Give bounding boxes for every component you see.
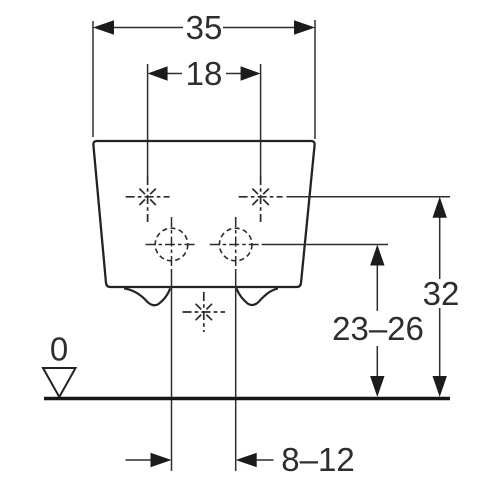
centerlines of left circle <box>146 217 198 271</box>
dimension line 23-26 <box>376 265 378 312</box>
svg-text:8–12: 8–12 <box>281 441 354 478</box>
extension line right for dim 18 <box>260 64 262 176</box>
bottom contour wave right <box>237 288 279 305</box>
dimension line 8-12 right tail <box>256 459 274 461</box>
centerlines of right circle <box>210 217 262 271</box>
svg-text:32: 32 <box>423 275 460 312</box>
arrow up of dim 32 <box>433 197 447 218</box>
dimension line 35 <box>113 27 183 29</box>
svg-text:35: 35 <box>186 9 223 46</box>
extension line down from right circle <box>235 271 237 471</box>
water connection dashed circle right <box>219 228 252 261</box>
dimension line 8-12 left tail <box>126 459 153 461</box>
floor line <box>44 397 450 400</box>
arrow left-pointing of dim 8-12 <box>236 453 257 467</box>
svg-text:0: 0 <box>50 331 68 368</box>
arrow right-pointing of dim 8-12 <box>151 453 172 467</box>
datum triangle <box>43 368 76 397</box>
extension line right for dim 35 <box>314 20 316 139</box>
svg-text:18: 18 <box>186 55 223 92</box>
bottom contour wave left <box>124 288 170 305</box>
extension line for dim 32 top <box>287 196 451 198</box>
arrow right of dim 35 <box>294 20 315 34</box>
extension line down from left circle <box>171 271 173 471</box>
fixing point crosshair upper-left <box>126 176 170 222</box>
arrow left of dim 18 <box>148 66 168 80</box>
extension line left for dim 18 <box>147 64 149 176</box>
arrow up of dim 23-26 <box>370 245 384 266</box>
fixing point crosshair bottom center <box>183 292 226 332</box>
svg-text:23–26: 23–26 <box>332 310 424 347</box>
extension line left for dim 35 <box>92 21 94 137</box>
bidet body outline <box>93 141 314 287</box>
arrow down of dim 23-26 <box>370 376 384 397</box>
arrow down of dim 32 <box>433 376 447 397</box>
fixing point crosshair upper-right <box>239 176 283 222</box>
extension line for dim 23-26 top <box>262 244 388 246</box>
dimension line 32 <box>439 217 441 279</box>
arrow right of dim 18 <box>241 66 261 80</box>
arrow left of dim 35 <box>93 20 114 34</box>
water connection dashed circle left <box>155 228 188 261</box>
dimension line 18 <box>167 73 182 75</box>
